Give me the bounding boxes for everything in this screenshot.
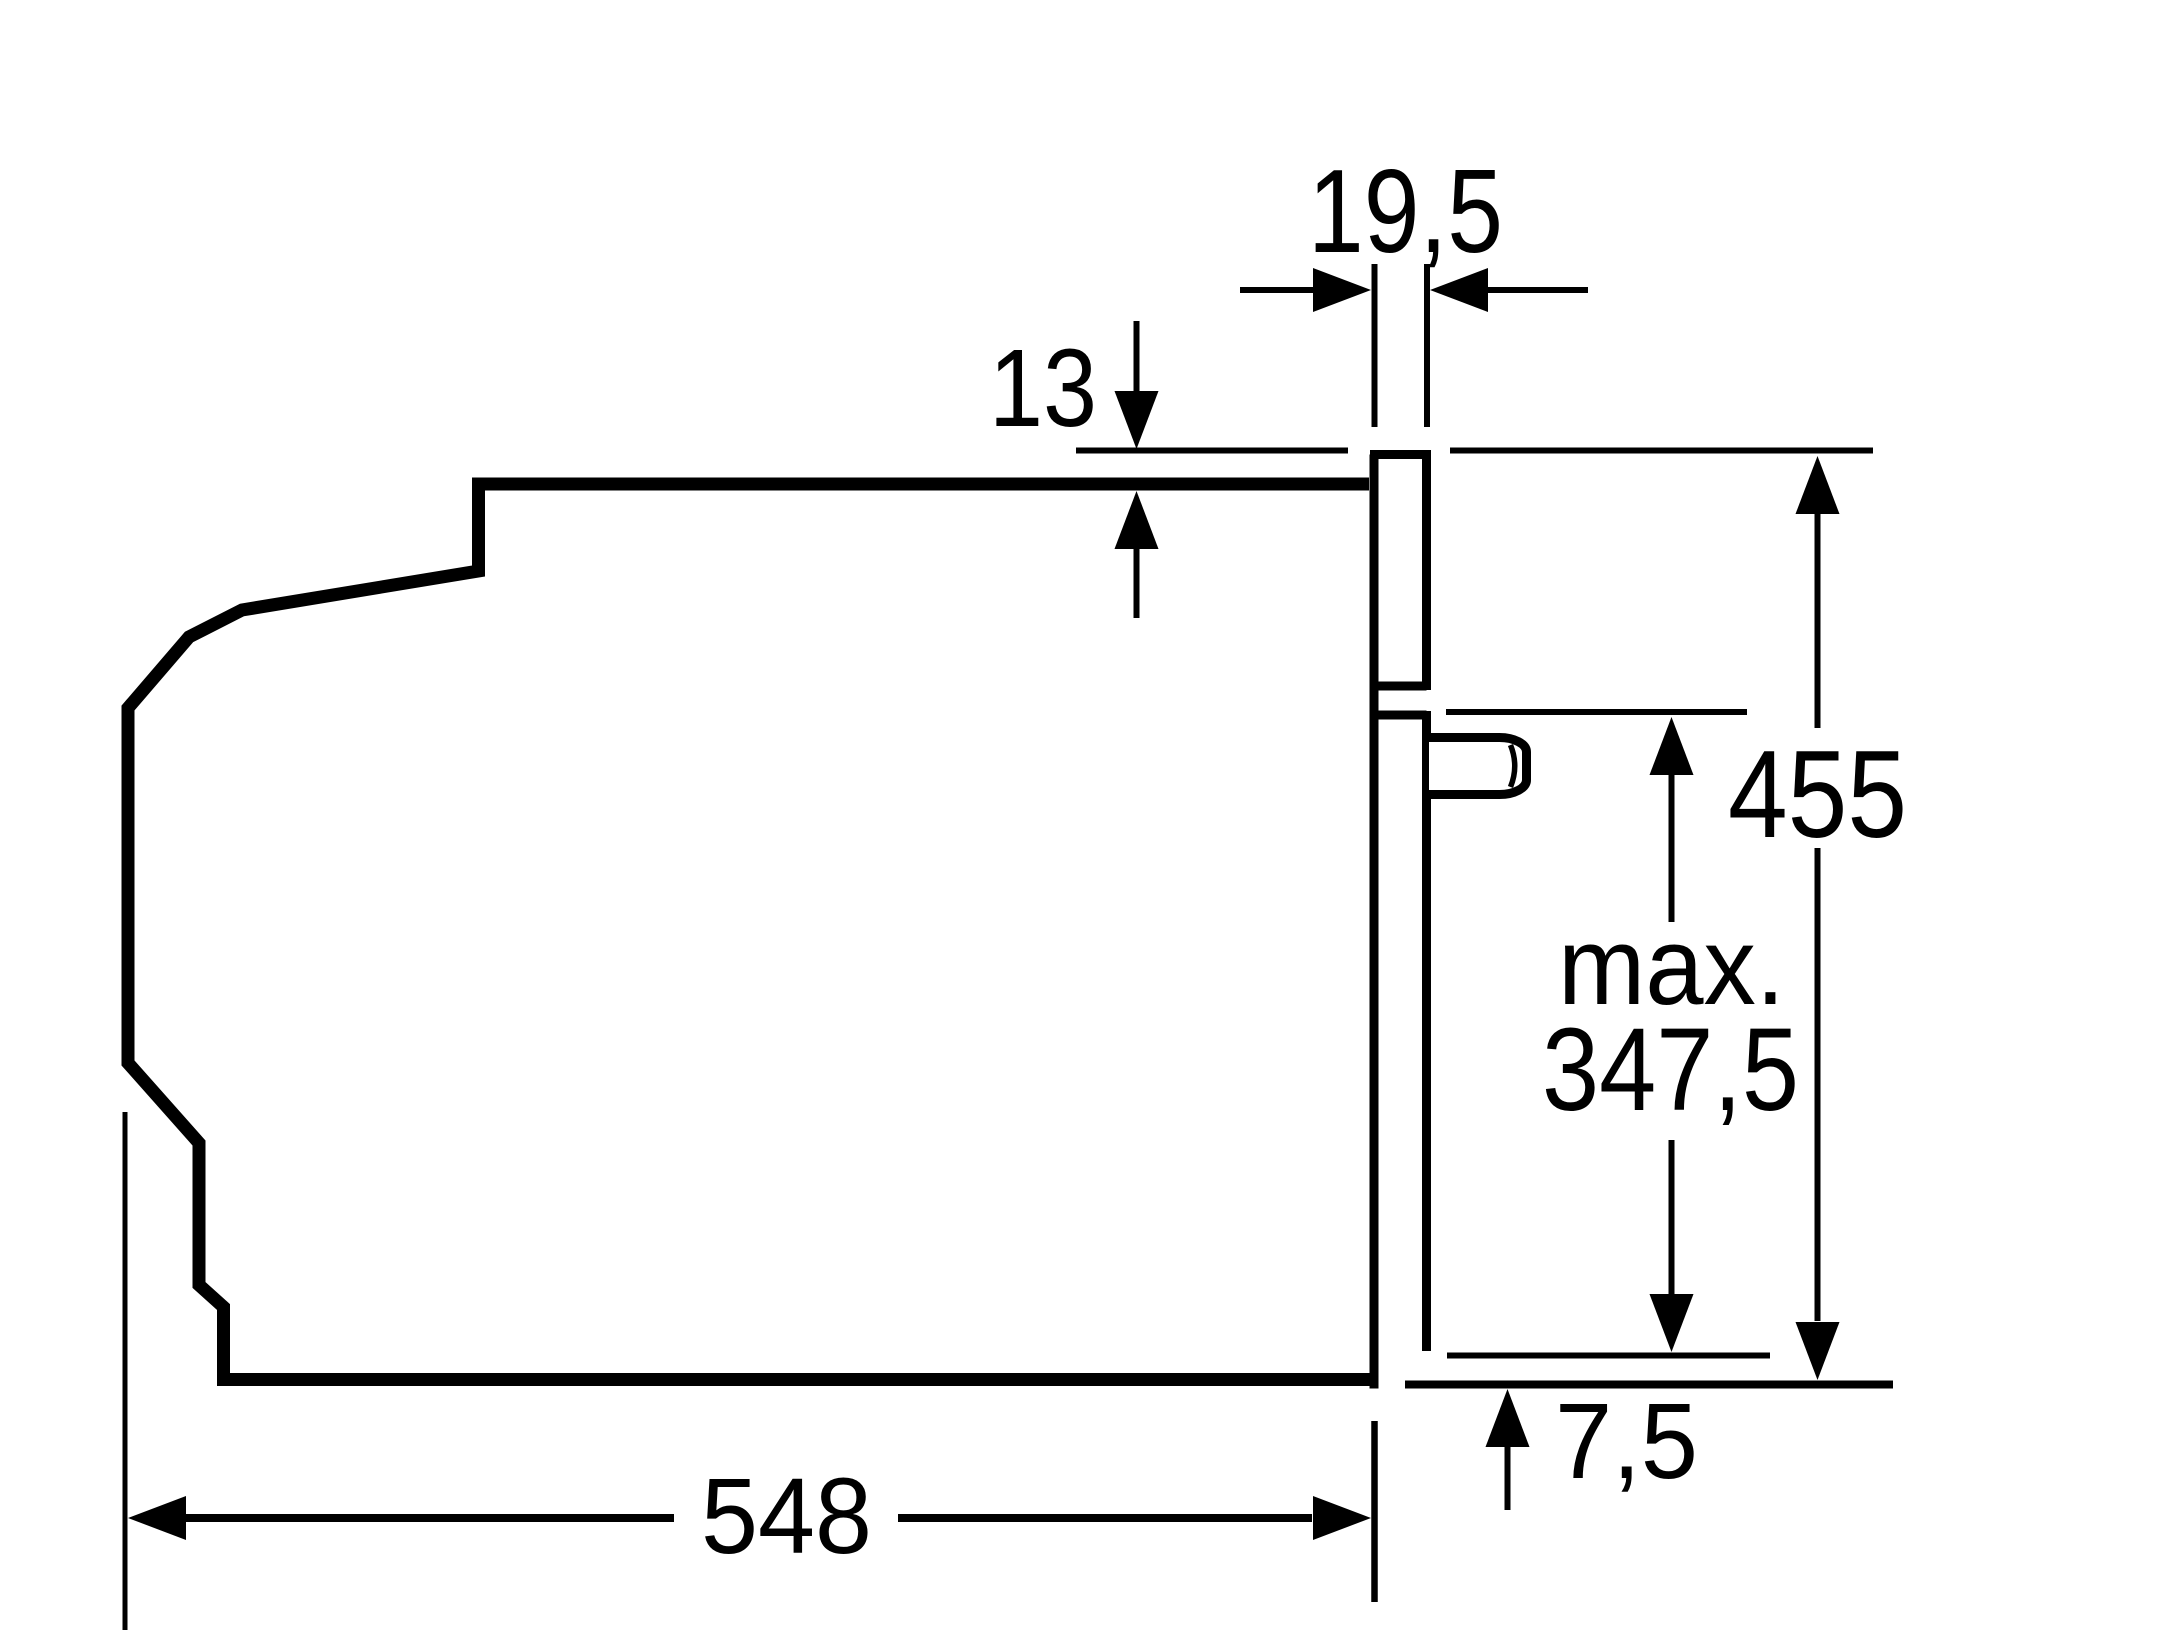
548 left arrowhead xyxy=(128,1496,186,1540)
13 up arrowhead xyxy=(1115,491,1159,549)
svg-text:548: 548 xyxy=(701,1455,872,1576)
door-top reference line right segment xyxy=(1450,448,1873,454)
panel-top reference line xyxy=(1446,709,1747,715)
svg-text:455: 455 xyxy=(1728,726,1907,864)
panel-bottom reference line xyxy=(1447,1353,1770,1359)
knob end-cap inner line xyxy=(1511,745,1515,787)
347,5 dimension stem lower xyxy=(1669,1140,1675,1294)
548 dimension line left segment xyxy=(186,1514,674,1522)
455 top arrowhead xyxy=(1796,456,1840,514)
svg-text:7,5: 7,5 xyxy=(1555,1380,1698,1501)
19,5 left arrowhead xyxy=(1313,268,1371,312)
oven body outline xyxy=(128,484,1378,1380)
13 down arrow stem xyxy=(1134,321,1140,392)
455 dimension stem upper xyxy=(1815,514,1821,728)
455 dimension stem lower xyxy=(1815,848,1821,1321)
347,5 dimension stem upper xyxy=(1669,775,1675,922)
19,5 right arrowhead xyxy=(1430,268,1488,312)
7,5 up arrowhead xyxy=(1486,1389,1530,1447)
548 dimension line right segment xyxy=(898,1514,1312,1522)
oven door front line xyxy=(1370,455,1379,1389)
door-top reference line left segment xyxy=(1076,448,1348,454)
knob outline xyxy=(1429,738,1527,795)
347,5 bottom arrowhead xyxy=(1650,1294,1694,1352)
control panel right edge xyxy=(1422,711,1431,1351)
548 right arrowhead xyxy=(1313,1496,1371,1540)
svg-text:19,5: 19,5 xyxy=(1308,145,1503,278)
oven door right edge xyxy=(1422,450,1431,690)
svg-text:347,5: 347,5 xyxy=(1542,1004,1799,1136)
548 extension line right xyxy=(1371,1421,1378,1602)
19,5 extension line right xyxy=(1424,264,1430,427)
19,5 extension line left xyxy=(1372,264,1378,427)
13 down arrowhead xyxy=(1115,391,1159,449)
455 bottom arrowhead xyxy=(1796,1322,1840,1380)
door-bottom reference line xyxy=(1405,1381,1893,1389)
19,5 dimension left tail xyxy=(1240,287,1313,293)
7,5 up arrow stem xyxy=(1505,1447,1511,1510)
548 extension line left xyxy=(123,1112,128,1630)
control panel top cap xyxy=(1370,711,1427,720)
oven door top cap xyxy=(1370,450,1427,459)
svg-text:13: 13 xyxy=(989,327,1097,450)
oven door bottom cap xyxy=(1370,682,1427,691)
13 up arrow stem xyxy=(1134,549,1140,618)
347,5 top arrowhead xyxy=(1650,717,1694,775)
19,5 dimension right tail xyxy=(1488,287,1588,293)
